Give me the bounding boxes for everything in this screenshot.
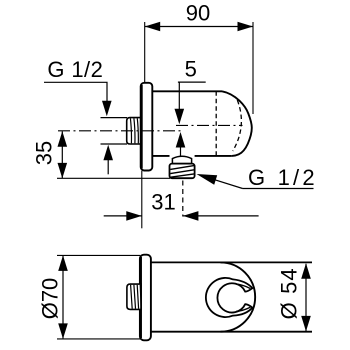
dimension 35 line (61, 131, 63, 178)
knurled knob neck (172, 156, 191, 163)
dimension Ø54 down arrow (301, 316, 311, 332)
holder top line with Ø54 extension (151, 261, 312, 263)
thread bottom up-arrow (103, 145, 113, 161)
body top edge (152, 90, 222, 92)
leader arrow down to thread top (102, 101, 112, 117)
hidden edge dashed vertical (215, 91, 217, 156)
dimension 31 left arrow (pointing right) (126, 211, 142, 221)
leader G 1/2 right arrow (197, 174, 218, 185)
svg-text:90: 90 (186, 1, 210, 26)
inlet nipple (bottom view) (127, 284, 141, 309)
inlet nipple (threaded, top view) (127, 118, 144, 144)
hidden nose arc dashed (233, 100, 242, 151)
thread top extension line (101, 117, 128, 119)
body bottom edge right segment (195, 155, 232, 157)
svg-text:Ø70: Ø70 (37, 278, 62, 320)
thread bottom arrow shaft (107, 158, 109, 174)
nipple thread lines (130, 118, 141, 143)
dimension 5 down arrow (175, 109, 185, 125)
thread bottom extension line (101, 143, 128, 145)
holder cup silhouette arc (221, 262, 256, 331)
dimension 90 right extension line (252, 22, 254, 114)
dimension Ø70 up arrow (58, 255, 68, 271)
svg-text:G 1/2: G 1/2 (47, 57, 103, 82)
leader G 1/2 right diagonal (205, 177, 243, 189)
dimension 90 right arrow (238, 22, 254, 32)
dimension 5 up arrow (176, 132, 186, 148)
knob axis dashed line (182, 181, 184, 217)
dimension 35 down arrow (58, 163, 68, 179)
dimension 5 down arrow shaft (178, 82, 180, 110)
dimension 31 right tail (183, 215, 259, 217)
dimension 35 up arrow (58, 131, 68, 147)
flange left face thick edge (140, 85, 142, 169)
dimension 31 wall extension line (141, 171, 143, 229)
knob bottom extension line (57, 177, 170, 179)
holder bottom line with Ø54 extension (151, 331, 312, 333)
dimension 31 left tail (104, 215, 142, 217)
svg-text:G 1/2: G 1/2 (248, 165, 318, 190)
dimension Ø54 up arrow (301, 263, 311, 279)
dimension 5 up arrow shaft (180, 146, 182, 156)
svg-text:31: 31 (151, 190, 175, 215)
dimension 90 left extension line (144, 22, 146, 87)
knurled knob body (170, 164, 195, 179)
body bottom edge left segment (152, 155, 169, 157)
flange left face thick edge (bottom view) (139, 257, 142, 338)
holder C-clip opening (206, 278, 253, 317)
body cylinder fill (152, 91, 252, 156)
dimension 5 bar (178, 81, 206, 83)
holder C-clip fang split lines (236, 284, 250, 311)
dimension Ø54 line (305, 264, 307, 331)
dimension 90 left arrow (145, 22, 161, 32)
dimension Ø70 line (62, 256, 64, 338)
svg-text:35: 35 (31, 141, 56, 165)
dimension 90 line (145, 26, 253, 28)
leader G 1/2 right underline (243, 188, 314, 190)
svg-text:5: 5 (185, 56, 197, 81)
main centerline (inlet axis) (58, 130, 183, 132)
nipple thread lines (bottom view) (131, 285, 142, 309)
body centerline (holder axis) (176, 124, 243, 126)
wall flange (top view) (141, 83, 153, 171)
dimension Ø70 top extension line (57, 254, 140, 256)
leader G 1/2 top-left (44, 82, 107, 103)
dimension Ø70 bottom extension line (57, 338, 140, 340)
dimension 31 right arrow (pointing left) (183, 211, 199, 221)
wall flange (bottom view) (140, 255, 151, 341)
knurl thread lines (170, 166, 194, 178)
dimension Ø70 down arrow (58, 323, 68, 339)
body nose outline (222, 91, 252, 156)
svg-text:Ø 54: Ø 54 (276, 267, 301, 319)
